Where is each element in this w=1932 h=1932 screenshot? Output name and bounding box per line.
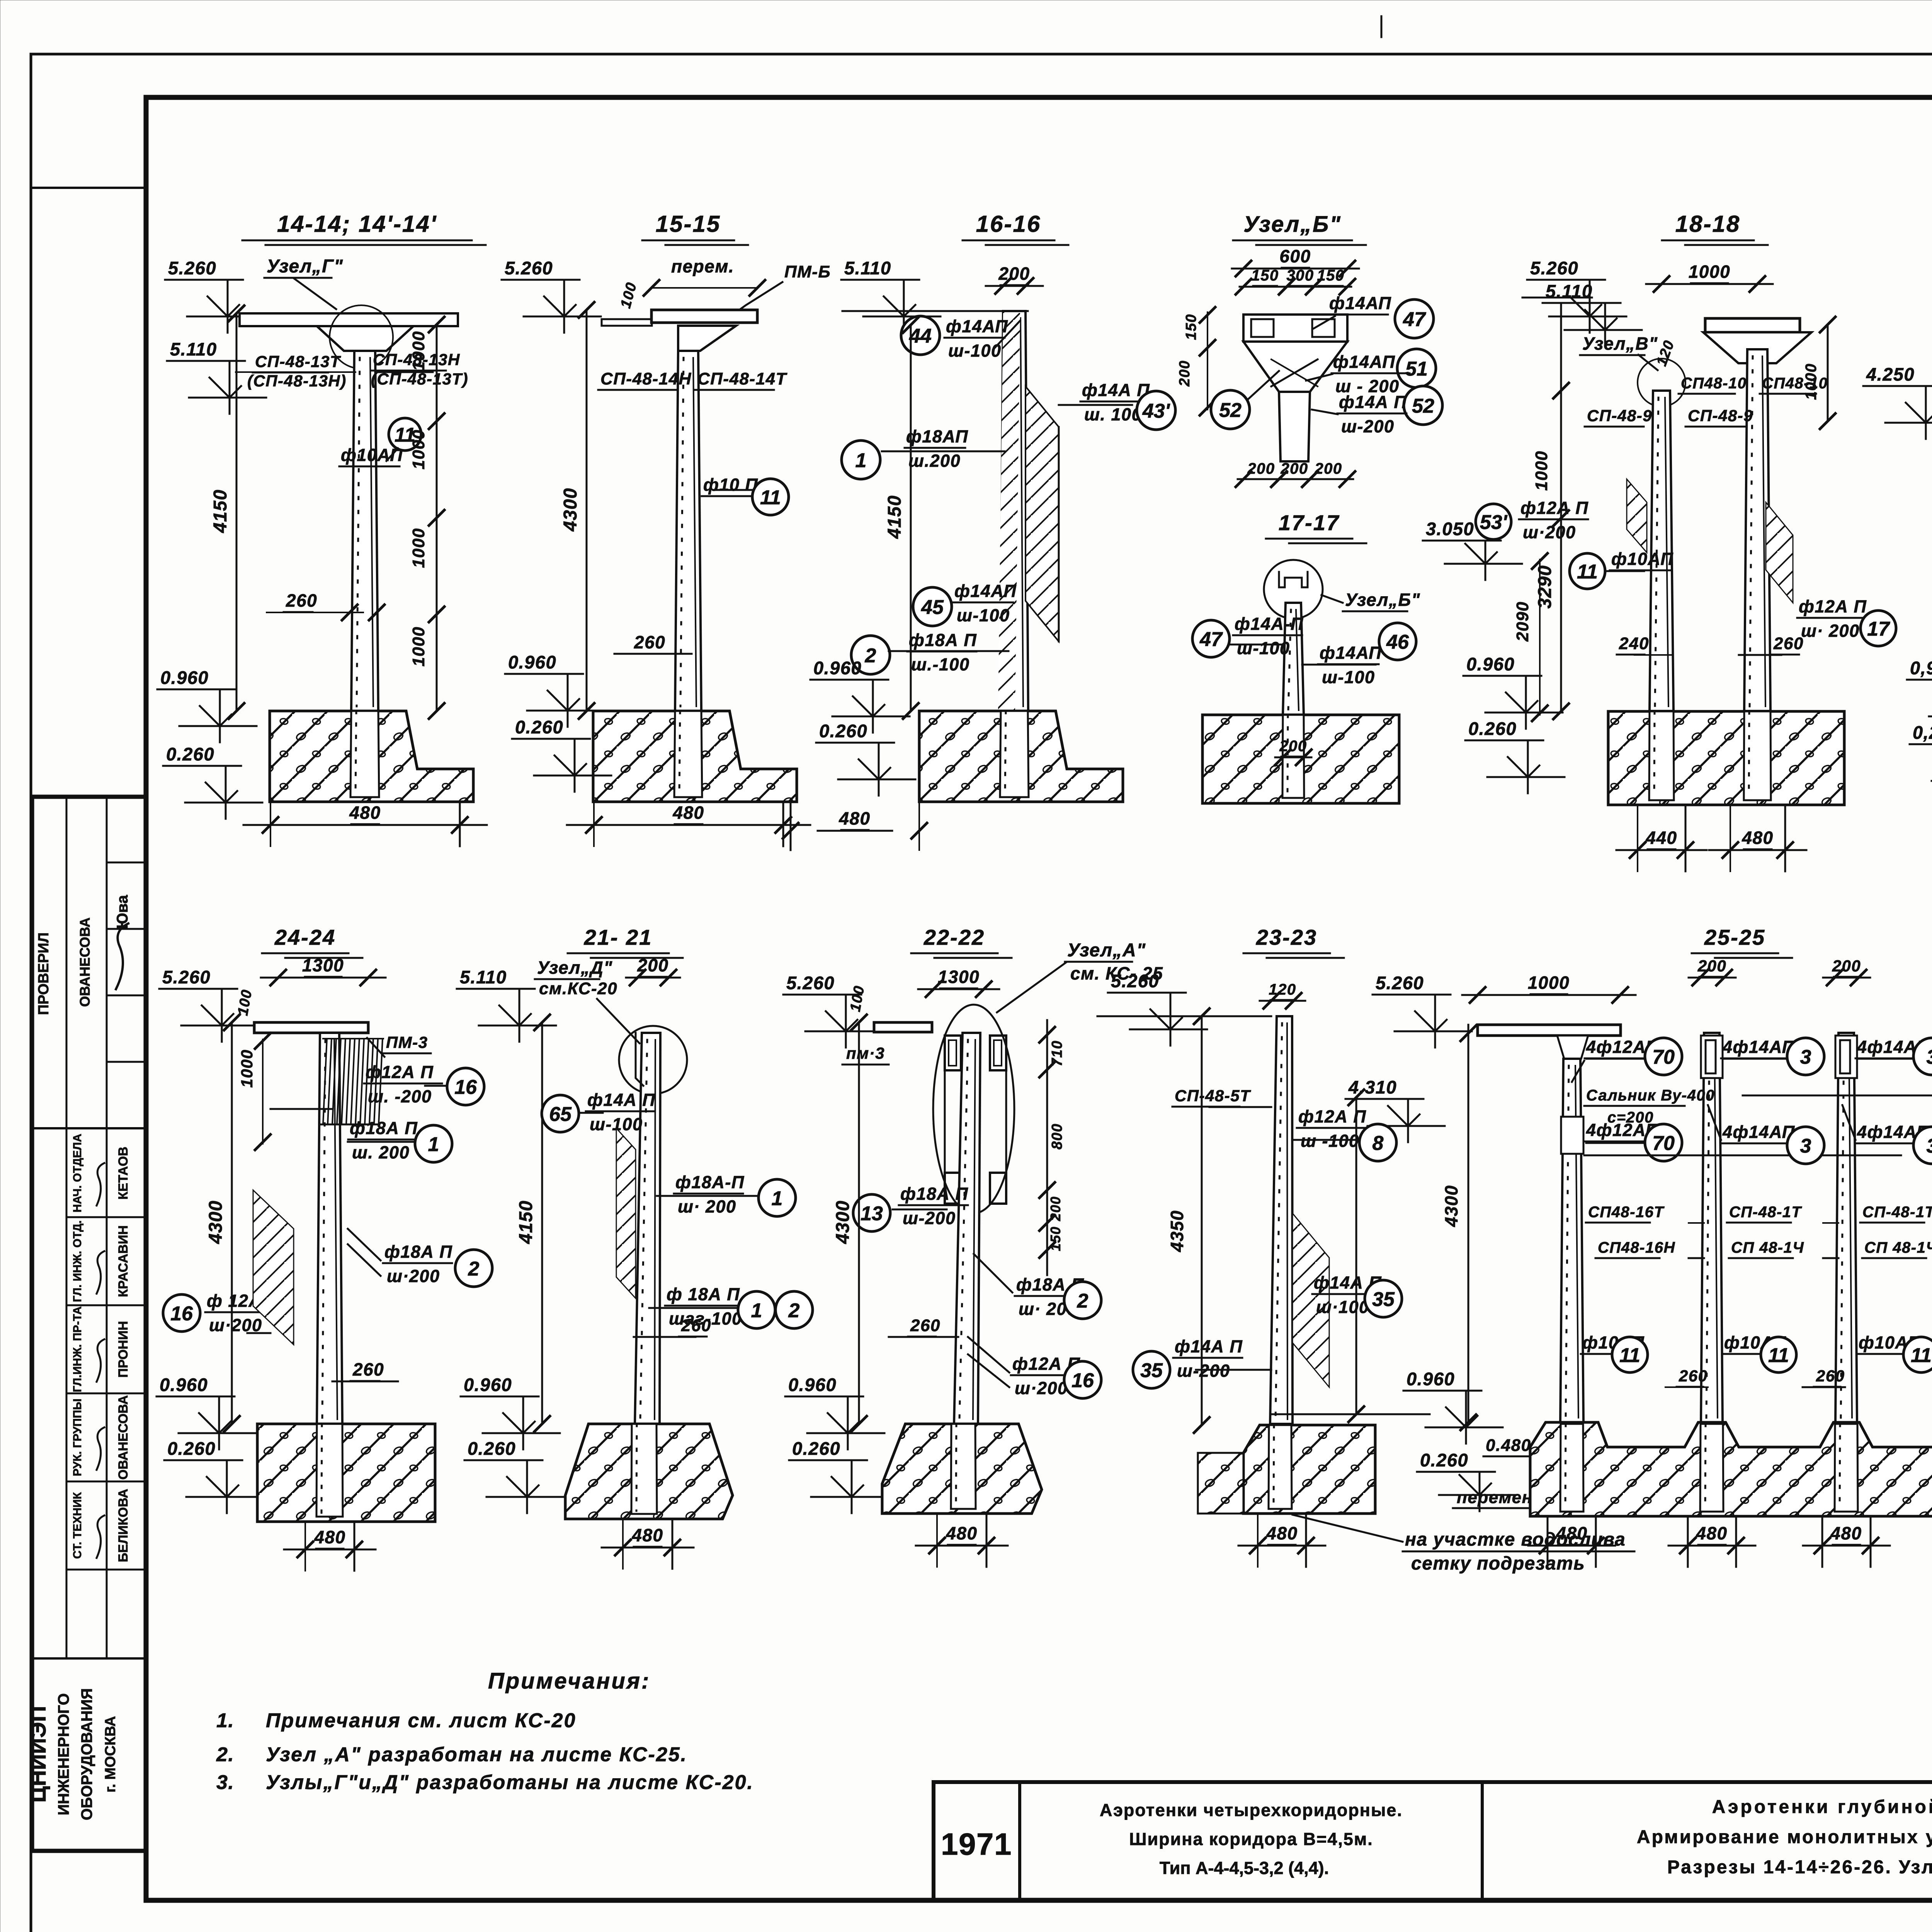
- svg-text:ш· 200: ш· 200: [1801, 621, 1860, 641]
- svg-text:0.260: 0.260: [819, 721, 867, 741]
- svg-text:52: 52: [1219, 399, 1242, 422]
- svg-text:4150: 4150: [884, 495, 905, 539]
- svg-text:260: 260: [910, 1316, 940, 1335]
- svg-text:200: 200: [1832, 957, 1861, 975]
- svg-text:120: 120: [1269, 981, 1296, 998]
- svg-text:РУК. ГРУППЫ: РУК. ГРУППЫ: [71, 1398, 84, 1476]
- svg-text:2090: 2090: [1513, 601, 1532, 642]
- svg-text:15-15: 15-15: [656, 211, 721, 237]
- svg-text:480: 480: [1556, 1523, 1587, 1543]
- svg-text:200: 200: [1314, 460, 1342, 477]
- svg-text:СП-48-14Н: СП-48-14Н: [600, 369, 692, 388]
- svg-text:СП-48-13Т: СП-48-13Т: [255, 352, 341, 371]
- svg-text:СП-48-9: СП-48-9: [1587, 406, 1652, 425]
- svg-text:3: 3: [1800, 1046, 1811, 1068]
- svg-text:5.260: 5.260: [1376, 973, 1424, 993]
- svg-text:Тип А-4-4,5-3,2 (4,4).: Тип А-4-4,5-3,2 (4,4).: [1160, 1858, 1329, 1878]
- svg-text:16-16: 16-16: [976, 211, 1041, 237]
- svg-text:ф14А П: ф14А П: [587, 1090, 655, 1110]
- svg-text:70: 70: [1652, 1132, 1675, 1155]
- svg-text:ш-100: ш-100: [957, 605, 1010, 625]
- svg-text:1: 1: [751, 1299, 762, 1322]
- svg-text:БЕЛИКОВА: БЕЛИКОВА: [116, 1489, 131, 1562]
- svg-text:СП-48-1Т: СП-48-1Т: [1862, 1204, 1932, 1221]
- svg-text:480: 480: [1742, 828, 1773, 848]
- svg-text:ш·200: ш·200: [209, 1315, 262, 1335]
- svg-text:47: 47: [1403, 308, 1426, 331]
- svg-text:8: 8: [1372, 1132, 1384, 1155]
- svg-text:800: 800: [1049, 1123, 1065, 1150]
- svg-text:200: 200: [1048, 1196, 1063, 1221]
- svg-text:ГЛ.ИНЖ. ПР-ТА: ГЛ.ИНЖ. ПР-ТА: [71, 1306, 84, 1392]
- svg-text:480: 480: [838, 808, 870, 828]
- svg-text:17: 17: [1867, 618, 1890, 640]
- svg-text:с=200: с=200: [1607, 1109, 1654, 1126]
- svg-text:260: 260: [1773, 634, 1804, 653]
- svg-text:ф12А П: ф12А П: [1520, 498, 1588, 518]
- svg-text:4150: 4150: [516, 1200, 536, 1244]
- svg-text:Примечания:: Примечания:: [488, 1668, 650, 1694]
- svg-text:ш.-100: ш.-100: [911, 655, 970, 674]
- svg-text:ф18АП: ф18АП: [906, 427, 968, 446]
- svg-text:1000: 1000: [1532, 451, 1551, 491]
- svg-text:Узлы„Г"и„Д" разработаны на лис: Узлы„Г"и„Д" разработаны на листе КС-20.: [266, 1771, 754, 1794]
- svg-text:1000: 1000: [409, 331, 428, 371]
- svg-text:200: 200: [1280, 460, 1308, 477]
- svg-text:480: 480: [349, 803, 381, 823]
- svg-text:150: 150: [1251, 267, 1279, 284]
- svg-text:СП48-16Т: СП48-16Т: [1588, 1204, 1665, 1221]
- svg-text:на участке водослива: на участке водослива: [1405, 1529, 1626, 1550]
- svg-text:150: 150: [1317, 267, 1344, 284]
- svg-text:Примечания см. лист КС-20: Примечания см. лист КС-20: [266, 1709, 576, 1732]
- svg-text:ш-100: ш-100: [1237, 638, 1290, 658]
- svg-text:260: 260: [352, 1359, 384, 1379]
- svg-text:52: 52: [1412, 395, 1434, 417]
- svg-text:480: 480: [672, 803, 704, 823]
- svg-text:г. МОСКВА: г. МОСКВА: [102, 1716, 119, 1793]
- svg-text:2: 2: [865, 645, 876, 667]
- svg-text:1000: 1000: [409, 626, 428, 667]
- svg-text:16: 16: [454, 1076, 477, 1099]
- svg-text:710: 710: [1049, 1040, 1065, 1066]
- svg-text:11: 11: [1768, 1344, 1789, 1367]
- svg-text:ф12А П: ф12А П: [1799, 597, 1867, 616]
- svg-text:240: 240: [1619, 634, 1649, 653]
- svg-text:1.: 1.: [216, 1709, 234, 1732]
- svg-text:ф14А П: ф14А П: [1175, 1337, 1243, 1356]
- svg-text:1: 1: [428, 1133, 439, 1156]
- svg-text:0,960: 0,960: [1910, 658, 1932, 678]
- svg-text:480: 480: [314, 1527, 345, 1547]
- svg-text:СП 48-1Ч: СП 48-1Ч: [1731, 1239, 1804, 1256]
- svg-text:5.260: 5.260: [162, 967, 211, 987]
- svg-text:ш.200: ш.200: [908, 451, 961, 471]
- svg-text:24-24: 24-24: [274, 925, 336, 949]
- svg-text:1000: 1000: [409, 429, 428, 469]
- svg-text:сетку подрезать: сетку подрезать: [1411, 1553, 1585, 1574]
- svg-text:45: 45: [921, 596, 944, 619]
- svg-text:2: 2: [468, 1258, 480, 1280]
- svg-text:ш·100: ш·100: [1316, 1297, 1369, 1317]
- svg-text:ф14АП: ф14АП: [1320, 643, 1382, 663]
- svg-text:480: 480: [946, 1523, 977, 1543]
- svg-text:ш-100: ш-100: [1322, 667, 1375, 687]
- svg-text:44: 44: [909, 325, 932, 347]
- svg-text:1300: 1300: [302, 955, 344, 975]
- svg-text:ф18А П: ф18А П: [350, 1118, 418, 1138]
- svg-text:0.480: 0.480: [1486, 1436, 1531, 1455]
- svg-text:0.260: 0.260: [515, 717, 563, 737]
- svg-text:0.260: 0.260: [167, 1438, 216, 1459]
- svg-text:ф12А П: ф12А П: [366, 1062, 434, 1082]
- svg-text:ф14АП: ф14АП: [1329, 293, 1391, 313]
- svg-text:35: 35: [1372, 1288, 1395, 1311]
- svg-text:4300: 4300: [833, 1200, 853, 1244]
- svg-text:ш. 100: ш. 100: [1084, 405, 1142, 424]
- svg-text:Узел„Б": Узел„Б": [1243, 212, 1342, 237]
- svg-text:ф10АП: ф10АП: [341, 445, 403, 465]
- svg-text:СП-48-9: СП-48-9: [1688, 406, 1753, 425]
- svg-text:СП-48-5Т: СП-48-5Т: [1175, 1087, 1251, 1105]
- svg-text:200: 200: [1247, 460, 1275, 477]
- svg-text:480: 480: [1696, 1523, 1727, 1543]
- svg-text:ОВАНЕСОВА: ОВАНЕСОВА: [116, 1395, 131, 1480]
- svg-text:0.960: 0.960: [788, 1374, 837, 1395]
- svg-text:70: 70: [1652, 1046, 1675, 1068]
- svg-text:1000: 1000: [409, 528, 428, 568]
- svg-text:17-17: 17-17: [1279, 510, 1340, 535]
- svg-text:5.260: 5.260: [1111, 971, 1159, 991]
- svg-text:1000: 1000: [238, 1049, 256, 1088]
- svg-text:43': 43': [1142, 400, 1170, 422]
- svg-text:1: 1: [855, 449, 867, 472]
- svg-text:480: 480: [1266, 1523, 1298, 1543]
- svg-text:3: 3: [1800, 1135, 1811, 1157]
- svg-text:260: 260: [681, 1316, 711, 1335]
- svg-text:ш·200: ш·200: [1015, 1378, 1068, 1398]
- svg-text:5.260: 5.260: [1530, 258, 1578, 278]
- svg-text:4150: 4150: [210, 489, 231, 533]
- svg-text:СП-48-14Т: СП-48-14Т: [697, 369, 787, 388]
- svg-text:0.260: 0.260: [1468, 718, 1517, 739]
- svg-text:0.960: 0.960: [813, 658, 862, 678]
- svg-text:46: 46: [1386, 631, 1409, 653]
- svg-text:4300: 4300: [560, 488, 581, 532]
- svg-text:5.260: 5.260: [786, 973, 835, 993]
- svg-text:480: 480: [1830, 1523, 1862, 1543]
- svg-text:1000: 1000: [1803, 363, 1820, 400]
- svg-text:ф14А П: ф14А П: [1082, 380, 1150, 400]
- svg-text:ф14А-П: ф14А-П: [1235, 614, 1304, 634]
- svg-text:5.110: 5.110: [1546, 281, 1593, 301]
- svg-text:16: 16: [1071, 1369, 1094, 1392]
- svg-text:СП48-10: СП48-10: [1681, 375, 1747, 392]
- svg-text:Сальник Ву-400: Сальник Ву-400: [1586, 1087, 1715, 1104]
- svg-text:260: 260: [1679, 1367, 1708, 1385]
- svg-text:ЦНИИЭП: ЦНИИЭП: [26, 1706, 51, 1803]
- svg-text:Узел„А": Узел„А": [1067, 940, 1146, 961]
- svg-text:260: 260: [1816, 1367, 1845, 1385]
- svg-text:ш. -200: ш. -200: [368, 1087, 432, 1106]
- svg-text:ф18А П: ф18А П: [900, 1184, 968, 1204]
- svg-text:600: 600: [1279, 246, 1311, 266]
- svg-text:Узел„Д": Узел„Д": [537, 957, 613, 978]
- svg-text:(СП-48-13Н): (СП-48-13Н): [247, 372, 347, 390]
- svg-text:0.260: 0.260: [166, 744, 214, 764]
- svg-text:Армирование монолитных участко: Армирование монолитных участков стен.: [1637, 1827, 1932, 1847]
- svg-text:150: 150: [1183, 314, 1199, 340]
- svg-text:5.110: 5.110: [460, 967, 507, 987]
- svg-text:3.050: 3.050: [1426, 519, 1474, 539]
- svg-text:ф10АП: ф10АП: [1611, 549, 1673, 569]
- svg-text:4300: 4300: [206, 1200, 226, 1244]
- svg-text:11: 11: [1577, 561, 1598, 583]
- svg-text:3.: 3.: [216, 1771, 234, 1794]
- svg-text:0.960: 0.960: [1406, 1369, 1455, 1389]
- svg-text:53': 53': [1480, 511, 1508, 534]
- svg-text:4.310: 4.310: [1348, 1077, 1397, 1097]
- svg-text:ф10 П: ф10 П: [703, 475, 758, 495]
- svg-text:1: 1: [772, 1187, 783, 1210]
- svg-text:КЕТАОВ: КЕТАОВ: [116, 1146, 131, 1199]
- svg-text:4350: 4350: [1167, 1210, 1187, 1252]
- svg-text:11: 11: [1911, 1344, 1932, 1367]
- svg-text:ф18А П: ф18А П: [909, 630, 977, 650]
- svg-text:1000: 1000: [1689, 262, 1730, 282]
- svg-text:25-25: 25-25: [1704, 925, 1765, 949]
- svg-text:4ф14АП: 4ф14АП: [1722, 1037, 1795, 1057]
- svg-text:ф14АП: ф14АП: [1333, 352, 1395, 372]
- svg-text:4.250: 4.250: [1866, 364, 1915, 384]
- svg-text:ш·200: ш·200: [387, 1266, 440, 1286]
- svg-text:НАЧ. ОТДЕЛА: НАЧ. ОТДЕЛА: [71, 1134, 84, 1213]
- svg-text:11: 11: [1619, 1344, 1640, 1367]
- svg-text:пм·3: пм·3: [846, 1044, 885, 1062]
- svg-text:СТ. ТЕХНИК: СТ. ТЕХНИК: [71, 1492, 84, 1559]
- svg-text:260: 260: [634, 632, 665, 652]
- svg-text:200: 200: [1697, 957, 1727, 975]
- svg-text:4300: 4300: [1441, 1185, 1461, 1227]
- svg-text:перем.: перем.: [671, 256, 734, 276]
- svg-text:65: 65: [549, 1103, 572, 1126]
- svg-text:ПМ-3: ПМ-3: [386, 1033, 428, 1051]
- svg-text:СП 48-1Ч: СП 48-1Ч: [1864, 1239, 1932, 1256]
- svg-text:0.960: 0.960: [160, 1374, 208, 1395]
- svg-text:Узел„Г": Узел„Г": [267, 256, 343, 277]
- svg-text:ш. 200: ш. 200: [352, 1143, 410, 1162]
- svg-text:2: 2: [788, 1299, 800, 1322]
- svg-text:200: 200: [998, 264, 1030, 284]
- svg-text:ПМ-Б: ПМ-Б: [784, 262, 831, 281]
- svg-text:3290: 3290: [1535, 565, 1555, 609]
- svg-text:260: 260: [286, 590, 317, 611]
- svg-text:200: 200: [1177, 360, 1193, 387]
- svg-text:18-18: 18-18: [1675, 211, 1740, 237]
- svg-text:480: 480: [631, 1525, 663, 1545]
- svg-text:23-23: 23-23: [1256, 925, 1317, 949]
- svg-text:35: 35: [1140, 1359, 1163, 1382]
- svg-text:ИНЖЕНЕРНОГО: ИНЖЕНЕРНОГО: [55, 1693, 72, 1815]
- svg-text:3: 3: [1927, 1135, 1932, 1157]
- svg-text:Аэротенки глубиной 4,4м.: Аэротенки глубиной 4,4м.: [1712, 1797, 1932, 1817]
- svg-text:13: 13: [861, 1202, 883, 1225]
- svg-text:см.КС-20: см.КС-20: [539, 979, 617, 998]
- svg-text:ф18А П: ф18А П: [384, 1242, 452, 1262]
- svg-text:47: 47: [1199, 628, 1223, 651]
- svg-text:ф18А-П: ф18А-П: [675, 1172, 745, 1192]
- svg-text:51: 51: [1405, 358, 1428, 380]
- svg-text:200: 200: [1279, 738, 1307, 755]
- svg-text:ПРОВЕРИЛ: ПРОВЕРИЛ: [36, 932, 52, 1015]
- svg-text:1300: 1300: [938, 967, 980, 987]
- svg-text:11: 11: [760, 486, 781, 509]
- svg-text:0.260: 0.260: [468, 1438, 516, 1459]
- svg-text:0,260: 0,260: [1913, 722, 1932, 743]
- svg-text:ОВАНЕСОВА: ОВАНЕСОВА: [77, 917, 93, 1007]
- svg-text:Узел„Б": Узел„Б": [1345, 590, 1420, 610]
- svg-text:0.960: 0.960: [160, 667, 209, 688]
- svg-text:1971: 1971: [941, 1827, 1012, 1861]
- svg-text:ф14А П: ф14А П: [1339, 392, 1407, 412]
- svg-text:4ф14АП: 4ф14АП: [1722, 1122, 1795, 1142]
- svg-text:3: 3: [1927, 1046, 1932, 1068]
- svg-text:2: 2: [1077, 1290, 1088, 1312]
- svg-text:0.960: 0.960: [464, 1374, 512, 1395]
- svg-text:5.260: 5.260: [505, 258, 553, 278]
- svg-text:ш·200: ш·200: [1523, 522, 1576, 542]
- svg-text:14-14; 14'-14': 14-14; 14'-14': [277, 211, 437, 237]
- svg-text:СП48-16Н: СП48-16Н: [1598, 1239, 1675, 1256]
- svg-text:ф 18А П: ф 18А П: [667, 1284, 740, 1304]
- svg-text:2.: 2.: [216, 1743, 234, 1766]
- svg-text:0.960: 0.960: [1466, 654, 1515, 674]
- svg-text:0.960: 0.960: [508, 652, 556, 672]
- svg-text:ГЛ. ИНЖ. ОТД.: ГЛ. ИНЖ. ОТД.: [71, 1220, 84, 1302]
- svg-text:440: 440: [1645, 828, 1677, 848]
- svg-text:5.110: 5.110: [844, 258, 891, 278]
- svg-text:ш-200: ш-200: [1341, 417, 1395, 436]
- svg-text:0.260: 0.260: [1420, 1450, 1468, 1470]
- svg-text:Ширина коридора В=4,5м.: Ширина коридора В=4,5м.: [1129, 1829, 1373, 1849]
- svg-text:ОБОРУДОВАНИЯ: ОБОРУДОВАНИЯ: [78, 1688, 95, 1820]
- svg-text:ф14АП: ф14АП: [954, 581, 1017, 601]
- svg-text:КРАСАВИН: КРАСАВИН: [116, 1225, 131, 1297]
- svg-text:5.110: 5.110: [170, 339, 217, 359]
- svg-text:Узел „А" разработан на листе К: Узел „А" разработан на листе КС-25.: [266, 1743, 687, 1766]
- svg-text:Узел„В": Узел„В": [1582, 333, 1658, 354]
- svg-text:22-22: 22-22: [923, 925, 985, 949]
- svg-text:1000: 1000: [1528, 973, 1570, 993]
- svg-text:5.260: 5.260: [168, 258, 216, 278]
- svg-text:150: 150: [1048, 1226, 1063, 1251]
- svg-text:16: 16: [170, 1303, 193, 1325]
- svg-text:Аэротенки четырехкоридорные.: Аэротенки четырехкоридорные.: [1100, 1800, 1403, 1820]
- svg-text:ш· 200: ш· 200: [678, 1197, 736, 1216]
- svg-text:ш-200: ш-200: [903, 1208, 956, 1228]
- svg-text:СП-48-1Т: СП-48-1Т: [1729, 1204, 1803, 1221]
- svg-text:Разрезы 14-14÷26-26. Узлы „Б"и: Разрезы 14-14÷26-26. Узлы „Б"и„В".: [1667, 1857, 1932, 1878]
- svg-text:0.260: 0.260: [792, 1438, 840, 1459]
- svg-text:21- 21: 21- 21: [584, 925, 653, 949]
- svg-text:200: 200: [637, 955, 668, 975]
- svg-text:ф14АП: ф14АП: [946, 316, 1008, 336]
- svg-text:300: 300: [1286, 267, 1314, 284]
- svg-text:ПРОНИН: ПРОНИН: [116, 1321, 131, 1378]
